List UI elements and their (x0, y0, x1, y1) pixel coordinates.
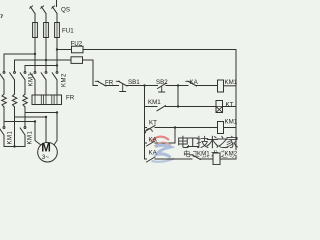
wire tap 1 to motor line 1 (4, 121, 35, 123)
svg-text:电工技术之家: 电工技术之家 (177, 135, 239, 150)
svg-text:KM1: KM1 (225, 79, 238, 86)
wire motor lead 2 (45, 117, 47, 142)
contactor KM2 main contact 2 (41, 71, 47, 95)
wire star point (4, 146, 25, 148)
wire phase1 QS to FU1 (34, 14, 36, 23)
relay KA NO contact (rung5) (147, 157, 156, 162)
wire rung1 SB2 to KA (166, 85, 188, 87)
contactor KM1 main contact 2 (10, 71, 16, 94)
contactor KM1 star contact 2 (20, 121, 26, 147)
supply line L3 top (56, 0, 58, 7)
svg-text:KM2: KM2 (225, 151, 238, 158)
disconnect switch QS pole 1 arrow tick (30, 6, 33, 8)
wire phase3 QS to FU1 (56, 14, 58, 23)
fuse FU1 element 1 (33, 23, 38, 38)
svg-text:FU2: FU2 (71, 41, 83, 48)
wire rung4 start (145, 142, 147, 144)
contactor coil KM1 (rung1) (218, 80, 237, 92)
node tap3 (56, 111, 58, 113)
wire rung3 to coil (155, 127, 218, 129)
svg-text:FU1: FU1 (62, 28, 74, 35)
fuse FU2 element b (71, 57, 93, 64)
wire winding3 tail (24, 107, 26, 121)
svg-text:SB1: SB1 (128, 79, 140, 86)
wire rung5 (155, 158, 192, 160)
wire phase2 vertical FU1 to contact (45, 38, 47, 72)
fuse FU2 element a (72, 46, 237, 53)
svg-text:M: M (41, 143, 51, 155)
wire motor lead 3 (54, 113, 57, 145)
node phase1 branch (34, 53, 36, 55)
autotransformer winding 3 (23, 94, 28, 107)
disconnect switch QS pole 3 blade (52, 7, 57, 14)
svg-text:KM2: KM2 (62, 73, 68, 87)
wire rung4 to link (155, 128, 175, 144)
svg-text:KT: KT (149, 120, 157, 127)
svg-text:KM1: KM1 (197, 151, 210, 158)
contactor KM2 main contact 3 (52, 71, 58, 95)
wire tap 3 to motor line 3 (25, 112, 57, 114)
contactor KM2 main contact 1 (30, 71, 36, 95)
relay coil KA (rung3) (218, 122, 237, 134)
node star point (13, 145, 15, 147)
relay KA NO holding contact (rung4) (147, 141, 156, 146)
time relay KT delayed NO contact (146, 125, 155, 132)
svg-text:3~: 3~ (42, 154, 50, 161)
relay KA NC contact (rung1) (186, 81, 218, 86)
wire phase2 QS to FU1 (45, 14, 47, 23)
fuse FU1 element 2 (44, 23, 49, 38)
svg-text:FR: FR (66, 95, 75, 102)
wire rung2 start (145, 106, 158, 108)
svg-text:KA: KA (149, 150, 158, 157)
wire tap 2 to motor line 2 (15, 116, 47, 118)
watermark blue logo (152, 145, 175, 162)
disconnect switch QS pole 1 blade (30, 7, 35, 14)
contactor KM1 main contact 1 (0, 71, 5, 94)
svg-text:KA: KA (149, 137, 158, 144)
wire winding2 tail to star (14, 107, 16, 147)
wire branch phase1 to left bank (4, 54, 35, 71)
wire winding1 tail (3, 107, 5, 122)
disconnect switch QS pole 2 blade (41, 7, 46, 14)
wire control tap L phase3 to FU2a (57, 49, 72, 51)
node rung1 branch B (177, 84, 179, 86)
svg-text:KM1: KM1 (28, 131, 34, 145)
contactor KM1 main contact 3 (20, 71, 26, 94)
node phase3 branch (56, 64, 58, 66)
wire rung5 start (145, 158, 147, 160)
node phase3 control tap (56, 48, 58, 50)
node tap1 (34, 120, 36, 122)
wire phase1 vertical FU1 to contact (34, 38, 36, 72)
node tap2 (45, 116, 47, 118)
svg-text:KM1: KM1 (8, 131, 14, 145)
svg-text:KA: KA (190, 79, 199, 86)
label M inside motor is above; edge artifact mark (1, 15, 3, 19)
wire phase3 vertical FU1 to contact (56, 38, 58, 72)
thermal relay FR NC contact (control) (95, 81, 118, 86)
wire holding link SB2 (177, 86, 179, 107)
contactor KM1 NC interlock (rung5) (190, 155, 213, 160)
svg-text:FR: FR (105, 80, 114, 87)
wire motor lead 1 (35, 122, 41, 145)
svg-text:KM1: KM1 (148, 99, 161, 106)
svg-text:SB2: SB2 (156, 79, 168, 86)
node holding link rung2 (177, 105, 179, 107)
node rung1 branch A (143, 84, 145, 86)
watermark red swoosh (151, 137, 171, 147)
wire branch phase2 to left bank and control tap N (15, 60, 72, 71)
autotransformer winding 1 (2, 94, 7, 107)
autotransformer winding 2 (12, 94, 17, 107)
wire control right rail (235, 50, 237, 160)
contactor KM1 star contact 1 (0, 122, 5, 147)
thermal overload relay FR heater box (32, 95, 62, 105)
wire rung3 start (145, 127, 147, 129)
svg-text:KT: KT (226, 102, 234, 109)
wire rung1 SB1 to SB2 (127, 85, 158, 87)
time relay coil KT (216, 101, 236, 113)
disconnect switch QS pole 2 arrow tick (41, 6, 44, 8)
svg-text:QS: QS (61, 7, 70, 14)
node phase2 branch (45, 59, 47, 61)
start button SB2 NO (158, 83, 167, 92)
wire control left rail (93, 60, 98, 86)
fuse FU1 element 3 (55, 23, 60, 38)
wire left dropper (144, 86, 146, 160)
wire rung2 to KT coil (166, 106, 217, 108)
wire branch phase3 to left bank (25, 66, 57, 72)
svg-text:KM1: KM1 (29, 73, 35, 87)
contactor coil KM2 (rung5) (213, 153, 236, 165)
svg-text:KM1: KM1 (225, 119, 238, 126)
contactor KM1 aux NO contact (rung2) (157, 106, 166, 111)
disconnect switch QS pole 3 arrow tick (52, 6, 55, 8)
node rung3 KA holding (174, 126, 176, 128)
stop button SB1 NC (116, 81, 127, 91)
motor M circle (38, 142, 58, 162)
